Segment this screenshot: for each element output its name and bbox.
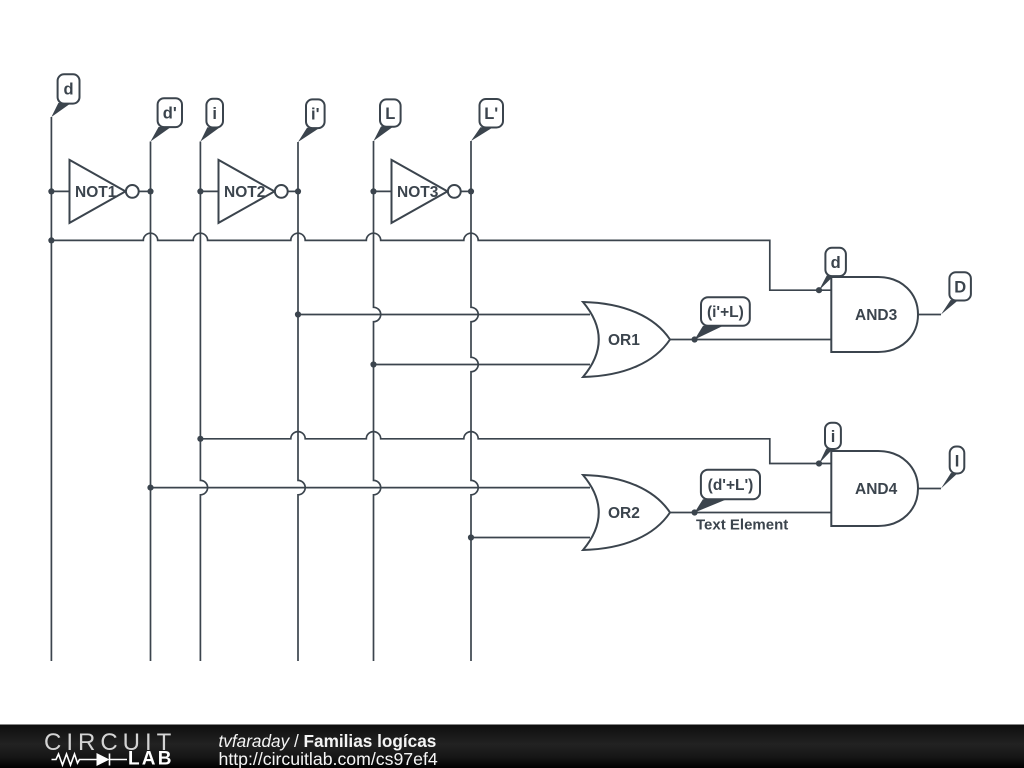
wire row6 net L' to OR2 bottom input [471, 537, 590, 539]
NOT gate NOT2 [219, 160, 288, 223]
junction net i at NOT2 input [197, 188, 203, 194]
NOT gate NOT3 [392, 160, 461, 223]
wire NOT1 output stub [139, 190, 151, 192]
wire net i vertical with hop over row5 [200, 142, 207, 662]
wire NOT2 input stub [200, 190, 218, 192]
junction net i' at NOT2 output [295, 188, 301, 194]
wire NOT2 output stub [288, 190, 298, 192]
wire NOT3 input stub [374, 190, 392, 192]
svg-text:d: d [64, 81, 74, 99]
net flag (d'+L') at OR2 output [695, 470, 760, 513]
svg-text:AND3: AND3 [855, 307, 898, 324]
svg-text:http://circuitlab.com/cs97ef4: http://circuitlab.com/cs97ef4 [219, 749, 438, 768]
junction OR2 output [692, 509, 698, 515]
svg-text:i: i [831, 428, 836, 446]
NOT gate NOT1 [70, 160, 139, 223]
svg-text:D: D [954, 279, 966, 297]
svg-text:LAB: LAB [128, 749, 174, 768]
net flag i [200, 99, 223, 142]
net flag I at AND4 output [941, 447, 964, 489]
wire net L' vertical with hops over row2, row3 and row5 [471, 141, 478, 661]
svg-text:L': L' [484, 105, 498, 123]
net flag L [374, 99, 401, 141]
svg-text:(i'+L): (i'+L) [707, 304, 744, 321]
junction net d at NOT1 input [48, 188, 54, 194]
svg-text:AND4: AND4 [855, 481, 898, 498]
svg-text:d': d' [163, 104, 177, 122]
svg-text:i: i [212, 105, 217, 123]
wire net d' vertical (hops row1 handled on row1) [150, 142, 152, 662]
net flag L' [471, 99, 503, 141]
svg-text:tvfaraday / Familias logícas: tvfaraday / Familias logícas [219, 731, 437, 751]
OR gate OR1 [583, 302, 670, 377]
net flag i' [298, 99, 325, 142]
junction net i' at row2 [295, 311, 301, 317]
net flag (i'+L) at OR1 output [695, 297, 750, 339]
wire OR2 output to AND4 bottom input [670, 512, 831, 514]
junction net L' at NOT3 output [468, 188, 474, 194]
junction net i at row4 [197, 436, 203, 442]
junction net d' at row5 [147, 485, 153, 491]
svg-text:NOT1: NOT1 [75, 184, 117, 201]
wire OR1 output to AND3 bottom input [670, 339, 831, 341]
svg-text:Text Element: Text Element [696, 517, 788, 534]
svg-text:OR1: OR1 [608, 332, 640, 349]
svg-text:L: L [385, 105, 395, 123]
svg-text:NOT3: NOT3 [397, 184, 439, 201]
junction OR1 output [692, 336, 698, 342]
junction net L at NOT3 input [370, 188, 376, 194]
footer bar [0, 725, 1024, 768]
svg-text:OR2: OR2 [608, 505, 640, 522]
svg-text:I: I [955, 453, 960, 471]
CircuitLab logo resistor-diode symbol [52, 753, 128, 766]
net flag d' [151, 98, 183, 141]
junction net d' at NOT1 output [147, 188, 153, 194]
wire row1 net d to AND3 top input (hops over d',i,i',L,L') [51, 233, 831, 290]
svg-text:NOT2: NOT2 [224, 184, 265, 201]
svg-text:i': i' [311, 106, 320, 124]
wire row4 net i to AND4 top input (hops over i',L,L') [200, 432, 831, 464]
wire NOT1 input stub [51, 190, 69, 192]
net flag d (top left) [51, 74, 79, 117]
wire net L vertical with hops over row2 and row5 [374, 141, 381, 661]
wire row5 net d' to OR2 top input [151, 487, 591, 489]
wire net i' vertical with hop over row5 [298, 142, 305, 661]
net flag D at AND3 output [941, 272, 971, 314]
junction AND3 top input [816, 287, 822, 293]
junction net L at row3 [370, 361, 376, 367]
wire NOT3 output stub [461, 190, 471, 192]
junction net L' at row6 [468, 534, 474, 540]
junction AND4 top input [816, 460, 822, 466]
wire row2 net i' to OR1 top input [298, 314, 590, 316]
wire net d vertical [50, 117, 52, 661]
wire row3 net L to OR1 bottom input [374, 364, 591, 366]
wire AND4 output [918, 488, 941, 490]
svg-text:d: d [831, 254, 841, 272]
wire AND3 output [918, 314, 941, 316]
AND gate AND4 [831, 451, 918, 526]
junction net d at row1 [48, 237, 54, 243]
net flag i at AND4 input [819, 423, 841, 464]
OR gate OR2 [583, 475, 670, 550]
svg-text:(d'+L'): (d'+L') [708, 477, 754, 494]
AND gate AND3 [831, 277, 918, 352]
net flag d at AND3 input [819, 248, 846, 290]
